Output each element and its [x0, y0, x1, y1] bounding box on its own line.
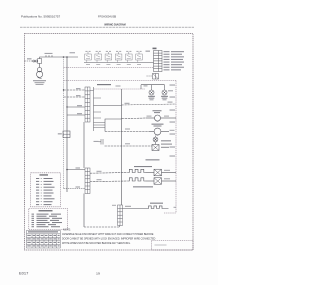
svg-text:Publications No. 5995510757: Publications No. 5995510757: [21, 15, 61, 19]
svg-text:ASSEMBLE MALE DISCONNECT WITH: ASSEMBLE MALE DISCONNECT WITH WIRE NUT A…: [62, 233, 154, 236]
svg-text:19: 19: [96, 272, 100, 276]
svg-text:WIRING DIAGRAM: WIRING DIAGRAM: [104, 22, 126, 26]
svg-text:FFGH3054USB: FFGH3054USB: [98, 15, 116, 19]
svg-text:DOOR CANNOT BE OPENED WITH LOC: DOOR CANNOT BE OPENED WITH LOCK ENGAGED.…: [62, 237, 156, 240]
svg-text:WHITE WIRES MUST BE MOUNTED BE: WHITE WIRES MUST BE MOUNTED BEFORE ANY S…: [62, 242, 131, 245]
svg-text:E017: E017: [19, 272, 28, 276]
